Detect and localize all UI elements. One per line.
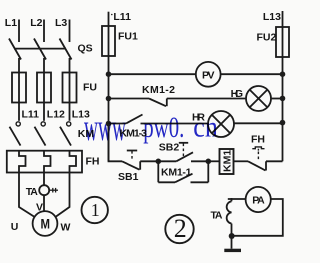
current transformer TA secondary: [227, 201, 232, 223]
svg-text:QS: QS: [78, 43, 93, 55]
contactor KM main contact 2: [41, 122, 45, 126]
wire QS to FU pole 3: [69, 58, 71, 73]
contactor KM label: [78, 128, 95, 140]
node L2: [30, 17, 42, 29]
wire branch left drop: [157, 161, 159, 182]
wire voltmeter line right: [221, 73, 283, 75]
svg-text:W: W: [61, 221, 71, 233]
svg-text:2: 2: [174, 214, 187, 243]
wire coil to FH contact: [234, 160, 249, 162]
circled numeral 2: [165, 215, 193, 243]
svg-text:L1: L1: [5, 17, 17, 29]
wire KM1-3 to HR: [141, 123, 209, 125]
circled numeral 1: [82, 197, 108, 223]
motor terminal V label: [36, 202, 43, 214]
node L3: [55, 17, 67, 29]
svg-text:FU2: FU2: [257, 32, 277, 44]
junction dot right bus line2: [280, 96, 286, 102]
contact KM1-1: [158, 181, 175, 183]
thermal relay FH label: [86, 156, 100, 168]
current transformer TA label: [26, 186, 38, 198]
switch QS pole 2: [34, 39, 46, 60]
svg-text:U: U: [11, 221, 19, 233]
fuse FU label: [83, 82, 97, 94]
wire HR line left: [109, 123, 127, 125]
svg-text:FH: FH: [251, 134, 265, 146]
switch QS label: [78, 43, 93, 55]
thermal relay FH box: [7, 151, 82, 173]
motor terminal U label: [11, 221, 19, 233]
svg-text:www: www: [84, 107, 126, 149]
svg-text:PV: PV: [202, 69, 215, 81]
junction dot SB branch right: [206, 159, 212, 165]
svg-text:pw0.: pw0.: [143, 111, 184, 144]
node L11 tap label: [113, 11, 131, 23]
svg-text:L3: L3: [55, 17, 67, 29]
wire QS to FU pole 2: [43, 58, 45, 73]
wire FH to motor phase 1: [19, 173, 35, 217]
fuse FU2: [282, 27, 284, 57]
thermal contact FH: [248, 161, 266, 170]
fuse FU pole 2: [43, 73, 45, 104]
wire voltmeter line left: [109, 73, 196, 75]
contactor KM main contact 3: [67, 122, 71, 126]
svg-text:FH: FH: [86, 156, 100, 168]
ammeter PA: [246, 187, 271, 212]
node L12: [47, 109, 65, 121]
motor terminal W label: [61, 221, 71, 233]
svg-text:SB1: SB1: [118, 171, 139, 183]
svg-text:M: M: [41, 215, 51, 231]
watermark www.pw0.cn: [84, 107, 218, 149]
fuse FU pole 1: [18, 73, 20, 104]
coil KM1: [208, 160, 219, 162]
wire QS to FU pole 1: [18, 58, 20, 73]
voltmeter PV: [196, 62, 221, 87]
node L13: [72, 109, 90, 121]
wire right control bus: [282, 57, 284, 161]
wire SB1 to node: [140, 160, 158, 162]
node L1: [5, 17, 17, 29]
svg-text:L11: L11: [113, 11, 131, 23]
junction dot right bus line3: [280, 120, 286, 126]
svg-text:KM1-1: KM1-1: [161, 167, 192, 179]
svg-text:FU1: FU1: [118, 31, 138, 43]
lamp HR: [208, 111, 234, 137]
wire TA to motor: [43, 195, 45, 211]
wire PA left to TA: [228, 198, 246, 200]
node L13 tap label: [263, 11, 281, 23]
wire left control bus: [108, 56, 110, 161]
junction dot left bus line1: [106, 71, 112, 77]
thermal relay FH heater 1: [19, 151, 26, 173]
wire branch right drop: [207, 161, 209, 182]
svg-text:TA: TA: [211, 210, 223, 222]
wire coil line left corner: [109, 124, 123, 162]
thermal relay FH heater 3: [70, 151, 77, 173]
ground: [224, 249, 241, 252]
pushbutton SB2: [158, 160, 176, 162]
svg-text:1: 1: [91, 200, 100, 220]
wire FU to KM pole 1: [18, 104, 20, 121]
wire L3 drop: [69, 20, 71, 43]
svg-text:V: V: [36, 202, 43, 214]
thermal relay FH heater 2: [44, 151, 51, 173]
junction dot SB branch left: [156, 159, 162, 165]
wire left control bus top: [108, 12, 110, 26]
fuse FU pole 3: [69, 73, 71, 104]
junction dot left bus line3: [106, 121, 112, 127]
contact KM1-3: [126, 115, 143, 124]
wire FH to motor phase 3: [56, 173, 70, 217]
junction dot right bus line1: [280, 71, 286, 77]
svg-text:HG: HG: [231, 88, 244, 100]
svg-text:PA: PA: [252, 195, 265, 207]
svg-text:L13: L13: [263, 11, 281, 23]
wire L2 drop: [43, 20, 45, 43]
svg-text:KM1: KM1: [222, 150, 234, 172]
wire right control bus top: [282, 11, 284, 27]
current transformer TA primary circle: [39, 185, 49, 195]
contact KM1-3 label: [120, 128, 148, 140]
svg-text:TA: TA: [26, 186, 38, 198]
junction dot left bus line2: [106, 96, 112, 102]
wire HG line left: [109, 98, 150, 100]
pushbutton SB1: [122, 161, 140, 169]
wire KM1-2 to HG: [167, 98, 246, 100]
lamp HG: [246, 86, 271, 111]
wire HR to right bus: [234, 122, 283, 124]
wire L1 drop: [18, 20, 20, 43]
svg-text:L2: L2: [30, 17, 42, 29]
wire FU to KM pole 3: [69, 104, 71, 121]
wire FU to KM pole 2: [43, 104, 45, 121]
svg-text:L12: L12: [47, 109, 65, 121]
contactor KM main contact 1: [16, 122, 20, 126]
wire FH to motor phase 2: [43, 173, 45, 186]
junction dot TA ground: [229, 233, 235, 239]
wire PA right loop: [232, 199, 283, 236]
contact KM1-2: [149, 99, 166, 107]
switch QS pole 1: [9, 39, 21, 60]
wire HG to right bus: [271, 98, 283, 100]
svg-text:L11: L11: [22, 109, 40, 121]
svg-text:cn: cn: [193, 111, 218, 144]
svg-text:KM1-2: KM1-2: [142, 84, 175, 96]
svg-text:FU: FU: [83, 82, 97, 94]
node L11: [22, 109, 40, 121]
switch QS linkage bar: [14, 48, 66, 50]
motor M: [33, 211, 58, 236]
fuse FU1: [108, 26, 110, 56]
switch QS pole 3: [60, 39, 72, 60]
